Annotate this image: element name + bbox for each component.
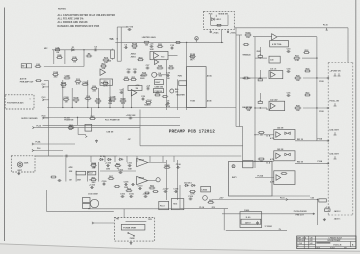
- svg-text:+C103: +C103: [89, 184, 96, 186]
- svg-text:R24 10K: R24 10K: [101, 81, 109, 84]
- svg-text:ALL CAPACITORS NOTED IN uF UNL: ALL CAPACITORS NOTED IN uF UNLESS NOTED: [58, 14, 116, 17]
- wire ladder vertical 1: [62, 80, 64, 108]
- capacitor C34: [287, 67, 292, 73]
- wire mid out: [303, 77, 329, 79]
- wire PL3 out: [46, 99, 49, 101]
- capacitor C102: [118, 169, 124, 174]
- capacitor C4: [94, 46, 98, 52]
- resistor R26 220R: [91, 86, 98, 93]
- power amp interface box: [229, 162, 273, 197]
- svg-text:T10B: T10B: [190, 101, 195, 103]
- potentiometer TREBLE 250K: [258, 54, 262, 58]
- resistor R64B: [164, 164, 171, 168]
- capacitor C8: [146, 85, 151, 90]
- svg-text:D12 D13: D12 D13: [184, 183, 191, 185]
- svg-text:10M: 10M: [150, 49, 154, 51]
- wire treble pot drop: [259, 47, 261, 54]
- wire ladder vertical 7: [131, 92, 133, 108]
- svg-text:15K: 15K: [259, 161, 263, 163]
- junction mid pot: [260, 77, 261, 78]
- svg-text:C65: C65: [311, 198, 314, 200]
- resistor R61 2K2: [90, 177, 97, 184]
- svg-text:FS10-L ON: FS10-L ON: [330, 101, 340, 103]
- power switch: [128, 232, 135, 236]
- svg-text:4.7M T10A: 4.7M T10A: [272, 43, 282, 46]
- title block outer: [297, 236, 356, 249]
- wire top right rail: [234, 27, 348, 29]
- capacitor C110: [138, 185, 144, 190]
- capacitor C106: [176, 164, 182, 169]
- resistor R22 22K: [100, 64, 107, 71]
- capacitor C55: [58, 179, 62, 182]
- capacitor C107b: [143, 193, 150, 198]
- wire limiter vert 2: [120, 27, 122, 61]
- title block row 3: [297, 244, 316, 246]
- title block divider v2: [308, 236, 310, 249]
- transistor Q5: [156, 178, 160, 182]
- wire bus y125: [43, 124, 181, 126]
- svg-text:4.7K: 4.7K: [103, 84, 108, 87]
- connector box PL13: [159, 201, 169, 209]
- capacitor C100: [105, 163, 112, 171]
- svg-text:P10A: P10A: [318, 138, 323, 141]
- svg-text:15K: 15K: [259, 135, 263, 137]
- resistor R43: [89, 115, 96, 119]
- svg-text:PL13: PL13: [160, 206, 165, 208]
- driver box bottom ext: [272, 195, 310, 197]
- wire bias out: [226, 229, 287, 231]
- wire ps vert b: [176, 160, 178, 200]
- op-amp stage box U9A: [274, 171, 295, 185]
- resistor R68: [114, 186, 120, 188]
- wire ps vert a: [165, 160, 167, 200]
- svg-text:+7VDC: +7VDC: [230, 32, 237, 34]
- svg-text:R14A: R14A: [132, 43, 138, 46]
- ground center: [95, 140, 98, 143]
- wire ps drop 6: [149, 156, 151, 162]
- wire aux out: [44, 80, 49, 82]
- wire reg2 out: [148, 180, 156, 182]
- wire vol feed vert: [242, 127, 244, 169]
- resistor R15A 15K: [245, 32, 252, 40]
- svg-text:+C2B 10M: +C2B 10M: [126, 115, 136, 117]
- resistor R16: [216, 24, 222, 26]
- op-amp U8B: [276, 153, 281, 159]
- capacitor C25: [133, 69, 138, 74]
- terminal PL16: [280, 197, 288, 200]
- resistor R39: [154, 93, 161, 96]
- scan grain texture: [0, 0, 1, 1]
- capacitor box C13B: [153, 89, 163, 93]
- op-amp U1 box: [150, 51, 168, 59]
- resistor stage U9A fb: [281, 173, 288, 175]
- svg-text:FS10: FS10: [319, 81, 324, 83]
- junction bus 6: [122, 107, 123, 108]
- svg-text:MASTER: MASTER: [177, 94, 186, 97]
- resistor R32: [303, 50, 310, 53]
- wire center vert: [177, 79, 179, 110]
- footswitch symbol 4: [334, 156, 337, 159]
- junction limiter left: [117, 38, 118, 39]
- svg-text:R1B: R1B: [72, 57, 77, 59]
- svg-text:T10: T10: [161, 57, 164, 59]
- paper bottom edge: [0, 244, 360, 251]
- terminal AC in: [92, 222, 96, 224]
- svg-text:C17 1M: C17 1M: [126, 26, 133, 28]
- mode select dashed box: [204, 11, 235, 29]
- wire inst cluster v2: [75, 171, 77, 182]
- potentiometer MID 10K: [258, 77, 262, 81]
- junction chain 3: [254, 161, 255, 162]
- svg-text:C10B: C10B: [53, 72, 59, 74]
- resistor R31b: [243, 77, 249, 79]
- capacitor C33: [287, 48, 292, 53]
- svg-text:4.7K: 4.7K: [270, 158, 275, 161]
- svg-text:10M: 10M: [106, 168, 110, 170]
- wire phono rail: [222, 213, 313, 215]
- svg-text:PL10: PL10: [37, 125, 42, 127]
- dashed off-board box bottom: [328, 214, 353, 216]
- capacitor C10B2 2K2: [52, 72, 59, 79]
- connector PL12 box: [85, 124, 92, 131]
- svg-text:FUSE: FUSE: [130, 238, 136, 240]
- footswitch symbol 2: [334, 103, 337, 106]
- diode pair U8B: [285, 153, 291, 155]
- op-amp U2B: [100, 69, 106, 76]
- transformer core box: [121, 224, 145, 230]
- wire b+ jog: [78, 134, 86, 136]
- wire treble rail: [255, 57, 267, 59]
- jack sleeve: [17, 162, 22, 167]
- svg-text:NOTES:: NOTES:: [58, 9, 67, 11]
- svg-text:SUPPLY GROUND: SUPPLY GROUND: [21, 118, 38, 120]
- svg-text:ALL DIODES ARE 1N4148: ALL DIODES ARE 1N4148: [58, 21, 89, 24]
- title block divider v1: [303, 236, 305, 249]
- junction eq out 1: [316, 57, 317, 58]
- wire reg1 out: [148, 162, 167, 164]
- resistor R8: [86, 54, 92, 57]
- svg-text:22K: 22K: [102, 68, 106, 70]
- junction eq out 3: [316, 107, 317, 108]
- svg-text:+7VDC: +7VDC: [213, 32, 220, 34]
- resistor R33 3.3K: [293, 56, 300, 63]
- wire drop left: [53, 50, 55, 64]
- wire node E stub: [196, 40, 198, 42]
- connector circle P: [232, 165, 235, 169]
- wire ladder vertical 5: [109, 80, 111, 108]
- resistor R66: [149, 186, 156, 189]
- svg-text:10K: 10K: [296, 80, 300, 82]
- ps cluster bottom: [180, 208, 228, 210]
- svg-text:LIMITED GAIN: LIMITED GAIN: [142, 36, 156, 39]
- svg-text:C41B 10M: C41B 10M: [154, 86, 163, 89]
- op-amp block box U2: [100, 79, 113, 85]
- wire xfmr drop: [123, 209, 125, 218]
- sheet left edge line: [4, 8, 6, 242]
- resistor R56: [50, 176, 56, 178]
- LED 1: [212, 18, 222, 21]
- svg-text:4M7: 4M7: [77, 179, 81, 182]
- junction chain 2: [254, 134, 255, 135]
- wire rail end drop: [347, 28, 349, 63]
- op-amp stage box U8B: [274, 151, 295, 161]
- arrow out U8B: [327, 162, 329, 164]
- wire mode pin 2: [215, 15, 217, 17]
- svg-text:9-81: 9-81: [310, 243, 313, 245]
- title block divider v4: [350, 242, 352, 247]
- wire ps drop 5: [136, 156, 138, 162]
- preamp box bottom edge: [140, 145, 243, 147]
- wire EQ out: [277, 36, 317, 38]
- wire tap2b: [264, 134, 274, 136]
- svg-text:LED-100 R: LED-100 R: [330, 130, 340, 132]
- svg-text:PL11 PHANTOM: PL11 PHANTOM: [105, 118, 120, 121]
- svg-text:172012-B: 172012-B: [333, 245, 342, 247]
- ps block left edge: [45, 190, 47, 211]
- resistor R20: [157, 44, 163, 47]
- resistor R34: [141, 72, 148, 76]
- op-amp U4A: [272, 34, 277, 40]
- resistor R38 bass 10K: [294, 106, 301, 113]
- wire tap2: [255, 134, 259, 136]
- resistor R15A 22K: [131, 43, 138, 51]
- svg-text:R64B: R64B: [164, 164, 170, 167]
- svg-text:.1M: .1M: [56, 52, 60, 54]
- svg-text:A10E: A10E: [207, 100, 212, 103]
- wire ladder vertical 4: [98, 88, 100, 108]
- capacitor C29: [141, 96, 146, 101]
- svg-text:R40: R40: [175, 88, 178, 91]
- diode D12: [184, 184, 189, 186]
- svg-text:JW02: JW02: [131, 53, 137, 55]
- svg-text:R60B: R60B: [91, 163, 97, 165]
- dashed off-board box right: [352, 63, 354, 216]
- svg-text:22K: 22K: [133, 48, 137, 50]
- wire mode pin 1: [210, 15, 212, 26]
- wire center vert 166: [166, 60, 168, 110]
- capacitor C5 10M: [150, 43, 155, 51]
- capacitor C7 10M: [108, 97, 112, 105]
- terminal PL10: [323, 24, 329, 30]
- svg-text:A10A: A10A: [207, 75, 212, 78]
- wire sw out: [44, 66, 84, 68]
- wire tap3: [255, 160, 259, 162]
- svg-text:250K: 250K: [257, 51, 262, 53]
- svg-text:SW: SW: [22, 66, 25, 68]
- wire Q1 out: [157, 74, 167, 76]
- svg-text:24VCT: 24VCT: [245, 221, 251, 224]
- svg-text:TREBLE: TREBLE: [242, 55, 251, 57]
- svg-text:REG2: REG2: [139, 177, 144, 179]
- title block dark bar: [316, 242, 330, 244]
- junction jack rail: [317, 199, 318, 200]
- resistor R21: [175, 41, 181, 43]
- svg-text:1: 1: [30, 99, 31, 101]
- capacitor C26: [120, 89, 125, 94]
- wire inst rail ext: [69, 155, 118, 157]
- wire ac in: [96, 222, 115, 224]
- transformer dashed box: [114, 218, 154, 242]
- junction input rail: [83, 49, 84, 50]
- op-amp U3B: [155, 60, 159, 65]
- svg-text:C10B: C10B: [63, 97, 69, 99]
- svg-text:220K: 220K: [24, 163, 29, 165]
- svg-text:+C103: +C103: [146, 100, 153, 102]
- capacitor C13B 47M: [110, 97, 117, 104]
- capacitor C6: [124, 44, 128, 49]
- capacitor C18: [170, 45, 175, 50]
- svg-text:15K: 15K: [247, 110, 251, 112]
- wire input top rail: [52, 49, 114, 51]
- svg-text:R2B: R2B: [57, 55, 62, 57]
- svg-text:7915: 7915: [173, 204, 177, 206]
- wire mode bottom rail: [211, 24, 228, 26]
- sheet right edge line: [355, 0, 357, 249]
- svg-text:PL5A: PL5A: [36, 141, 41, 144]
- svg-text:R7A: R7A: [104, 57, 109, 60]
- capacitor C24: [127, 68, 132, 74]
- resistor R62: [114, 163, 121, 170]
- resistor R12: [95, 99, 102, 106]
- ground inst jack: [17, 172, 20, 175]
- wire inst out: [35, 155, 63, 157]
- svg-text:C3B 1M: C3B 1M: [106, 132, 113, 134]
- diode pair U8A: [285, 132, 291, 134]
- svg-text:APN: APN: [69, 166, 74, 169]
- op-amp stage box U5A: [269, 71, 283, 79]
- transistor Q1: [152, 72, 157, 77]
- capacitor C106b: [129, 193, 135, 198]
- transistor Q6: [90, 199, 98, 207]
- junction bus 1: [62, 107, 63, 108]
- svg-text:ALL R'S ARE 1/4W 5%: ALL R'S ARE 1/4W 5%: [58, 18, 84, 21]
- svg-text:PL12: PL12: [88, 173, 93, 175]
- dashed off-board box left: [327, 63, 329, 216]
- capacitor C109: [102, 181, 108, 186]
- arrow bass out: [327, 107, 329, 109]
- svg-text:11 A: 11 A: [266, 108, 270, 111]
- wire eq 239 tap: [240, 77, 244, 79]
- instrument jack dashed box: [11, 156, 35, 172]
- svg-text:D7 D8: D7 D8: [100, 156, 105, 158]
- svg-text:LED 1: LED 1: [216, 19, 221, 21]
- svg-text:C16B: C16B: [64, 76, 70, 78]
- wire ladder vertical 6: [122, 88, 124, 108]
- junction bus 3: [87, 107, 88, 108]
- wire ps drop 2: [104, 156, 106, 162]
- capacitor C9 47M: [166, 100, 170, 108]
- terminal PL2: [42, 84, 47, 88]
- wire jack vert: [317, 200, 319, 226]
- svg-text:DASHED LINE PORTIONS OFF PCB: DASHED LINE PORTIONS OFF PCB: [58, 25, 100, 28]
- svg-text:C CHG: C CHG: [297, 243, 303, 245]
- wire bias up: [223, 209, 225, 231]
- svg-text:R4 47: R4 47: [156, 81, 161, 84]
- capacitor C21: [35, 80, 42, 82]
- terminal PL4: [42, 114, 47, 119]
- junction rail R18: [186, 42, 187, 43]
- wire b+ drop: [77, 128, 79, 135]
- svg-text:11 A: 11 A: [266, 161, 270, 164]
- wire rail x48: [48, 81, 50, 156]
- resistor R45A 15K: [245, 107, 252, 112]
- resistor R36 mid 10K: [294, 76, 301, 83]
- resistor R69: [144, 192, 150, 194]
- wire ps drop 4: [126, 156, 128, 162]
- svg-text:C31 .01: C31 .01: [270, 69, 276, 71]
- junction bus 4: [98, 107, 99, 108]
- scanner area below paper edge: [0, 244, 360, 254]
- regulator REG1: [137, 158, 148, 166]
- wire PL4 out: [46, 117, 49, 119]
- capacitor C27: [146, 65, 151, 70]
- svg-text:POWER XFMR: POWER XFMR: [123, 228, 136, 230]
- wire second vertical bus: [239, 35, 241, 127]
- svg-text:P10A: P10A: [318, 160, 323, 163]
- title block right row 1: [315, 238, 356, 240]
- op-amp block box U3: [128, 86, 142, 91]
- svg-text:17 220M: 17 220M: [265, 226, 273, 228]
- svg-text:1-80: 1-80: [310, 238, 313, 240]
- resistor tap2 15K: [258, 132, 265, 137]
- svg-text:JACK 2: JACK 2: [334, 210, 341, 213]
- transistor Q7: [203, 196, 208, 201]
- ps block bottom edge: [46, 210, 114, 212]
- svg-text:FOOTSWITCH AUX: FOOTSWITCH AUX: [7, 101, 24, 104]
- capacitor C36: [287, 92, 292, 97]
- wire drop mid: [64, 50, 66, 64]
- svg-text:C2A: C2A: [107, 60, 112, 63]
- svg-text:PHANTOM: PHANTOM: [64, 119, 74, 122]
- op-amp U1A: [154, 53, 159, 59]
- wire ladder vertical 3: [87, 80, 89, 108]
- svg-text:PL15A: PL15A: [258, 174, 264, 177]
- ground transformer: [130, 242, 133, 245]
- svg-text:K 4.0: K 4.0: [246, 216, 251, 219]
- junction treble pot: [260, 57, 261, 58]
- wire U1 out: [168, 55, 178, 57]
- svg-text:+JP-REV ON: +JP-REV ON: [330, 71, 342, 73]
- resistor R67: [108, 176, 115, 179]
- resistor R11B 1K: [73, 98, 80, 105]
- svg-text:PWR AMP OUT: PWR AMP OUT: [20, 80, 34, 83]
- wire q2 stub: [70, 124, 72, 127]
- connector box PDN: [179, 81, 187, 86]
- wire tap stage3: [255, 177, 274, 179]
- op-amp U9A: [276, 175, 281, 181]
- svg-text:PL16: PL16: [280, 197, 285, 199]
- resistor R31: [130, 77, 137, 80]
- wire ps top bus: [35, 155, 241, 157]
- diode D9: [118, 158, 123, 160]
- svg-text:3.3K: 3.3K: [295, 60, 300, 62]
- svg-text:PL6: PL6: [37, 148, 40, 150]
- arrow out U8A: [327, 140, 329, 142]
- transformer primary line: [126, 221, 147, 223]
- op-amp U8A: [276, 132, 281, 138]
- svg-text:C32 .047: C32 .047: [270, 98, 277, 101]
- resistor R1B 1M: [71, 57, 78, 64]
- svg-text:B471: B471: [232, 176, 237, 179]
- resistor R11 vertical: [111, 49, 115, 60]
- wire eq 239 tap2: [248, 77, 255, 79]
- capacitor C2B 10M: [126, 115, 136, 120]
- title block right row 2: [315, 241, 356, 243]
- svg-text:1M: 1M: [167, 78, 170, 80]
- wire b+ line: [36, 127, 140, 129]
- capacitor network C30 box: [269, 56, 280, 63]
- junction phantom: [77, 117, 78, 118]
